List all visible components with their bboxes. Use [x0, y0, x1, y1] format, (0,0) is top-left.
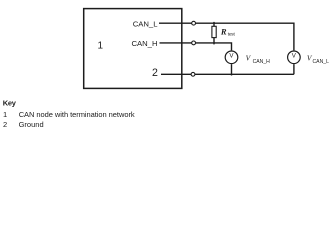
svg-text:Ground: Ground [19, 120, 44, 129]
svg-text:CAN_H: CAN_H [253, 59, 271, 65]
svg-text:CAN_H: CAN_H [131, 39, 157, 48]
svg-text:1: 1 [98, 41, 104, 52]
svg-text:R: R [220, 27, 227, 37]
svg-text:Key: Key [3, 98, 17, 107]
svg-text:2: 2 [3, 120, 7, 129]
svg-text:CAN node with termination netw: CAN node with termination network [19, 110, 135, 119]
svg-text:2: 2 [152, 67, 158, 79]
svg-text:CAN_L: CAN_L [313, 59, 330, 65]
svg-text:test: test [228, 31, 236, 36]
svg-text:CAN_L: CAN_L [133, 19, 159, 28]
svg-text:1: 1 [3, 110, 7, 119]
